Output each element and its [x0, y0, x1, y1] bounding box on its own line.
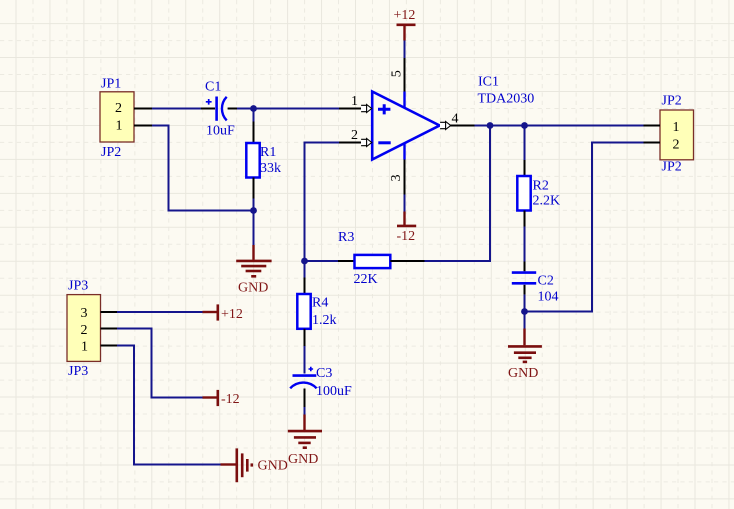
svg-text:JP2: JP2 [662, 159, 682, 174]
wire JP3 pin3 to +12 [117, 311, 203, 313]
wire pin5 to +12 [404, 41, 406, 59]
label R3 designator [338, 230, 354, 245]
svg-text:2: 2 [351, 128, 358, 143]
capacitor C3 [290, 367, 316, 407]
label IC1 designator [478, 75, 499, 90]
svg-text:GND: GND [288, 452, 318, 467]
wire feedback from output down to R3 [425, 126, 491, 262]
wire JP1 pin2 to C1 [152, 108, 201, 110]
junction node A (C1/R1) [250, 105, 257, 112]
label +12 top [394, 8, 416, 23]
op-amp pin 3 (V-) [389, 160, 405, 195]
op-amp pin 5 (V+) [390, 58, 405, 92]
wire op-amp pin2 to node C [305, 143, 340, 262]
ground GND2 (below C2) [508, 329, 542, 362]
svg-text:TDA2030: TDA2030 [478, 91, 535, 106]
label C2 designator [538, 274, 554, 289]
junction node OUT2 [521, 122, 528, 129]
connector JP1 body [100, 92, 134, 142]
label JP1 comment (bottom) [101, 145, 121, 160]
op-amp IC1 triangle [372, 92, 439, 160]
svg-text:C3: C3 [316, 366, 332, 381]
svg-text:33k: 33k [260, 161, 281, 176]
svg-text:GND: GND [258, 459, 288, 474]
label JP2 comment (bottom) [662, 159, 682, 174]
wire node D to ground [524, 312, 526, 329]
label C1 value 10uF [206, 124, 235, 139]
svg-text:C2: C2 [538, 274, 554, 289]
svg-text:JP2: JP2 [662, 94, 682, 109]
JP2 pin 1 [644, 120, 680, 135]
wire JP2 pin2 to node D [525, 143, 644, 312]
svg-text:R3: R3 [338, 230, 354, 245]
svg-text:1: 1 [673, 120, 680, 135]
svg-text:C1: C1 [205, 80, 221, 95]
label -12 right [221, 392, 240, 407]
svg-text:10uF: 10uF [206, 124, 235, 139]
svg-text:+12: +12 [394, 8, 416, 23]
wire node B to ground [253, 211, 255, 246]
label -12 bottom [397, 229, 416, 244]
label R4 value 1.2k [312, 313, 337, 328]
capacitor C1 [201, 97, 237, 121]
label JP1 designator (top) [101, 77, 121, 92]
label R2 value 2.2K [533, 194, 561, 209]
label GND1 text [238, 281, 268, 296]
resistor R3 [305, 255, 425, 268]
junction node C (R3/R4) [301, 258, 308, 265]
power port -12 (bottom) [397, 212, 416, 226]
svg-text:JP1: JP1 [101, 77, 121, 92]
ground GND3 (below C3) [288, 415, 322, 448]
wire JP1 pin1 down to node B [152, 126, 254, 211]
svg-text:2: 2 [115, 101, 122, 116]
svg-text:GND: GND [508, 366, 538, 381]
svg-text:R1: R1 [260, 145, 276, 160]
JP3 pin 3 [81, 306, 118, 321]
label JP3 designator (top) [68, 279, 88, 294]
svg-text:1: 1 [351, 94, 358, 109]
svg-text:-12: -12 [221, 392, 240, 407]
label GND3 text [288, 452, 318, 467]
ground GND1 (below R1) [236, 245, 271, 276]
svg-text:-12: -12 [397, 229, 416, 244]
svg-text:R4: R4 [312, 296, 328, 311]
JP2 pin 2 [644, 138, 680, 153]
power port +12 (right bar) [203, 304, 218, 320]
svg-text:22K: 22K [354, 272, 378, 287]
svg-text:2: 2 [81, 323, 88, 338]
junction node OUT1 [487, 122, 494, 129]
capacitor C2 [512, 273, 536, 312]
label R3 value 22K [354, 272, 378, 287]
JP1 pin 2 [115, 101, 152, 116]
wire op-amp output to JP2 pin1 [475, 125, 644, 127]
junction node B (below R1) [250, 207, 257, 214]
label R1 designator [260, 145, 276, 160]
svg-text:2: 2 [673, 138, 680, 153]
svg-text:R2: R2 [533, 179, 549, 194]
svg-text:2.2K: 2.2K [533, 194, 561, 209]
label R1 value 33k [260, 161, 281, 176]
svg-text:1: 1 [116, 118, 123, 133]
label C2 value 104 [538, 290, 559, 305]
svg-text:100uF: 100uF [316, 384, 352, 399]
label JP3 comment (bottom) [68, 364, 88, 379]
label C3 value 100uF [316, 384, 352, 399]
label C1 designator [205, 80, 221, 95]
connector JP3 body [67, 295, 101, 362]
svg-text:JP3: JP3 [68, 279, 88, 294]
svg-text:1.2k: 1.2k [312, 313, 337, 328]
label R2 designator [533, 179, 549, 194]
junction node D (C2/gnd) [521, 308, 528, 315]
svg-text:3: 3 [81, 306, 88, 321]
JP1 pin 1 [116, 118, 153, 133]
wire pin3 to -12 [404, 195, 406, 212]
JP3 pin 2 [81, 323, 118, 338]
wire JP3 pin1 to chassis ground [117, 346, 221, 465]
svg-text:4: 4 [452, 112, 459, 127]
wire JP3 pin2 to -12 [117, 329, 203, 398]
JP3 pin 1 [81, 340, 117, 355]
label C3 designator [316, 366, 332, 381]
ground GND4 (bar style) [221, 448, 252, 482]
op-amp pin 4 (output) [440, 112, 475, 130]
op-amp pin 2 (inverting input) [339, 128, 372, 146]
svg-text:+12: +12 [221, 307, 243, 322]
label JP2 designator (top) [662, 94, 682, 109]
svg-text:GND: GND [238, 281, 268, 296]
label GND2 text [508, 366, 538, 381]
power port +12 (top) [397, 25, 416, 41]
label R4 designator [312, 296, 328, 311]
svg-text:5: 5 [390, 70, 405, 77]
connector JP2 body [660, 110, 694, 160]
wire C3 to ground [304, 407, 306, 415]
resistor R4 [297, 261, 310, 374]
label GND4 text [258, 459, 288, 474]
svg-text:104: 104 [538, 290, 559, 305]
label IC1 value TDA2030 [478, 91, 535, 106]
resistor R1 [246, 109, 259, 211]
svg-text:1: 1 [81, 340, 88, 355]
svg-text:IC1: IC1 [478, 75, 499, 90]
wire C1 to op-amp pin1 [237, 108, 339, 110]
power port -12 (right bar) [203, 390, 218, 406]
op-amp pin 1 (non-inverting input) [339, 94, 372, 112]
svg-text:JP2: JP2 [101, 145, 121, 160]
svg-text:JP3: JP3 [68, 364, 88, 379]
svg-text:3: 3 [389, 175, 404, 182]
label +12 right [221, 307, 243, 322]
resistor R2 [517, 126, 530, 272]
